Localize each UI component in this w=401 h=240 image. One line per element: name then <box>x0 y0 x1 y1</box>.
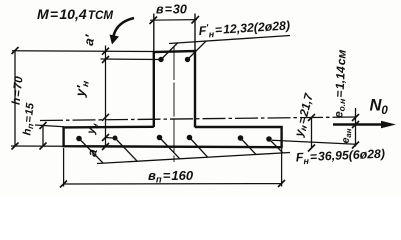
tick b right <box>192 16 200 24</box>
tick chain at top rebar <box>102 56 109 63</box>
tick b_p right <box>278 180 285 187</box>
force N line <box>333 123 384 126</box>
tick at N line <box>352 121 359 128</box>
tick axis end <box>352 114 359 121</box>
extension left edge down <box>63 148 65 187</box>
top rebar dot 1 <box>158 57 163 62</box>
dimension b_p=160 line <box>64 183 282 185</box>
tick y_n bottom <box>308 145 315 152</box>
tick b left <box>150 17 158 25</box>
leader shelf for F'n label <box>169 36 290 44</box>
leader diagonal from top dot 1 <box>161 43 178 60</box>
leader collector line for F_n label <box>97 153 290 164</box>
right eccentricity chain vertical <box>355 108 357 147</box>
tick chain at section top <box>102 48 109 55</box>
moment arrow <box>114 18 135 36</box>
dimension h_p=15 line <box>42 126 44 147</box>
tick h_p bottom <box>40 143 47 150</box>
extension right edge down <box>281 149 283 187</box>
extension line top of section <box>12 50 154 53</box>
bottom rebar dot 2 <box>113 136 118 141</box>
extension line bottom of flange to h dim <box>11 145 64 147</box>
leader diagonal from top dot 2 <box>188 41 207 60</box>
section outline: stem <box>154 51 195 127</box>
bottom rebar dot 4 <box>187 135 193 141</box>
tick at bottom rebar level <box>352 142 359 149</box>
tick h top <box>12 47 19 54</box>
extension bottom rebar level to right chain <box>272 140 356 144</box>
force N arrowhead <box>381 121 396 129</box>
dimension y_n=21,7 line <box>311 118 313 149</box>
tick h bottom <box>12 143 19 150</box>
bottom rebar dot 3 <box>157 135 163 141</box>
dimension b=30 line <box>150 19 197 22</box>
svg-text:в = 30: в = 30 <box>156 3 187 17</box>
leader diagonal from bottom dot 5 <box>241 138 256 154</box>
tick chain at axis <box>102 114 109 121</box>
leader diagonal from bottom dot 1 <box>79 139 103 164</box>
tick h_p top <box>40 122 47 129</box>
stem right extension up to b dimension <box>194 14 196 53</box>
top rebar dot 2 <box>185 57 190 62</box>
tick b_p left <box>60 181 67 188</box>
tick chain at bottom rebar <box>102 134 109 141</box>
extension top rebar level to chain <box>101 58 162 61</box>
stem left extension up to b dimension <box>153 14 155 53</box>
bottom rebar dot 6 <box>266 136 272 142</box>
leader diagonal from bottom dot 4 <box>190 138 208 158</box>
extension bottom rebar level to chain <box>106 137 114 140</box>
horizontal centroid axis (dash-dot) <box>40 117 356 121</box>
tick y_n top <box>308 114 315 121</box>
bottom rebar dot 1 <box>76 136 82 142</box>
svg-text:вп = 160: вп = 160 <box>148 168 194 186</box>
dimension h=70 line <box>14 51 16 147</box>
left dimension chain vertical line <box>105 46 107 148</box>
section outline: flange <box>64 127 282 147</box>
tick chain at flange bottom <box>102 143 109 150</box>
extension line flange top to h_p dim <box>35 125 64 127</box>
leader diagonal from bottom dot 2 <box>115 138 137 161</box>
bottom rebar dot 5 <box>238 135 244 141</box>
vertical center line of stem <box>173 46 175 162</box>
leader diagonal from bottom dot 3 <box>160 138 180 159</box>
leader diagonal from bottom dot 6 <box>269 139 283 153</box>
